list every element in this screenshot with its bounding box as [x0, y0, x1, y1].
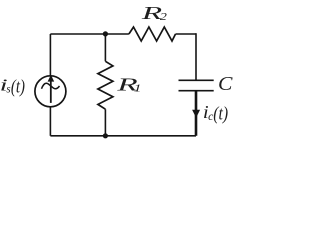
- svg-text:R: R: [140, 3, 162, 23]
- svg-text:C: C: [218, 73, 233, 95]
- svg-text:2: 2: [160, 11, 168, 23]
- svg-text:(t): (t): [11, 77, 25, 98]
- svg-text:1: 1: [134, 82, 142, 94]
- svg-text:(t): (t): [213, 104, 228, 125]
